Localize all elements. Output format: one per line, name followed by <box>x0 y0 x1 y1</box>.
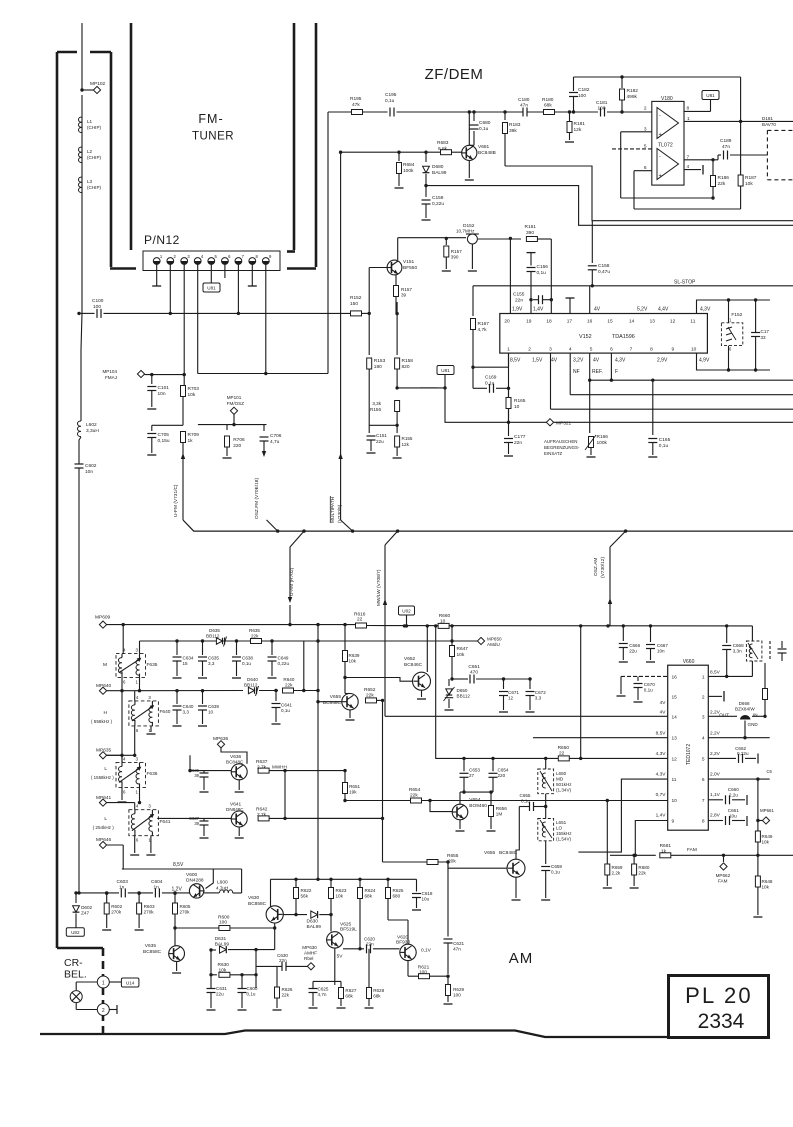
svg-text:15: 15 <box>672 694 678 700</box>
svg-text:R155: R155 <box>402 436 413 441</box>
svg-text:470: 470 <box>470 670 478 676</box>
svg-text:TED1072: TED1072 <box>686 744 692 765</box>
svg-text:C660: C660 <box>728 787 739 792</box>
svg-text:L651: L651 <box>556 820 567 825</box>
svg-text:C641: C641 <box>281 703 292 708</box>
svg-text:39k: 39k <box>509 128 517 134</box>
svg-text:V681: V681 <box>478 144 490 150</box>
svg-text:0,22u: 0,22u <box>432 201 444 207</box>
svg-text:R603: R603 <box>144 904 155 909</box>
svg-text:3,3: 3,3 <box>535 696 542 701</box>
svg-text:R165: R165 <box>514 398 526 404</box>
svg-text:U-FM (V731/C): U-FM (V731/C) <box>173 484 179 517</box>
svg-text:100: 100 <box>93 304 101 310</box>
svg-text:14: 14 <box>672 714 678 720</box>
svg-text:68k: 68k <box>373 994 381 999</box>
svg-text:C655: C655 <box>520 793 531 798</box>
svg-text:C155: C155 <box>513 292 525 298</box>
svg-text:R616: R616 <box>354 612 366 618</box>
svg-text:0,1u: 0,1u <box>659 443 669 449</box>
svg-text:C639: C639 <box>208 704 219 709</box>
svg-text:1: 1 <box>136 680 139 685</box>
svg-text:V660: V660 <box>683 659 695 665</box>
svg-text:REF.: REF. <box>592 369 603 375</box>
svg-text:D650: D650 <box>457 688 468 693</box>
svg-text:F640: F640 <box>160 709 171 715</box>
svg-text:R627: R627 <box>345 988 356 993</box>
svg-text:U81: U81 <box>207 286 216 291</box>
svg-text:C165: C165 <box>659 437 671 443</box>
svg-text:1n: 1n <box>119 884 125 890</box>
svg-text:39: 39 <box>194 821 199 826</box>
svg-text:13: 13 <box>672 736 678 742</box>
svg-text:22k: 22k <box>410 793 418 799</box>
svg-text:D680: D680 <box>432 164 444 170</box>
svg-text:17: 17 <box>567 319 573 325</box>
svg-text:3,3n: 3,3n <box>733 649 742 654</box>
svg-text:BAL99: BAL99 <box>215 942 230 948</box>
svg-text:27: 27 <box>469 773 475 778</box>
svg-text:R156: R156 <box>370 407 381 412</box>
svg-text:C181: C181 <box>596 100 608 106</box>
svg-text:1,1V: 1,1V <box>710 792 721 798</box>
svg-text:1,4V: 1,4V <box>656 813 667 819</box>
svg-text:270k: 270k <box>144 910 155 915</box>
svg-text:C651: C651 <box>468 664 480 670</box>
svg-text:L3: L3 <box>87 179 93 184</box>
svg-text:1: 1 <box>702 674 705 680</box>
svg-text:10k: 10k <box>219 967 227 973</box>
svg-text:8,5V: 8,5V <box>710 670 721 676</box>
svg-text:100: 100 <box>419 970 427 976</box>
svg-text:0,1u: 0,1u <box>385 98 395 104</box>
svg-text:R605: R605 <box>180 904 191 909</box>
svg-text:FMAJ: FMAJ <box>105 375 117 380</box>
svg-text:C672: C672 <box>535 690 546 695</box>
svg-text:BC848C: BC848C <box>499 850 518 856</box>
svg-text:R683: R683 <box>437 140 449 146</box>
svg-text:4,9V: 4,9V <box>699 358 710 364</box>
svg-text:22k: 22k <box>638 871 646 876</box>
svg-text:AMdU: AMdU <box>487 642 500 647</box>
svg-text:1: 1 <box>507 347 510 353</box>
svg-text:10k: 10k <box>762 840 770 845</box>
svg-text:C670: C670 <box>644 682 655 687</box>
svg-text:10u: 10u <box>422 897 430 902</box>
svg-text:R187: R187 <box>745 175 757 181</box>
svg-text:BAL99: BAL99 <box>432 170 447 176</box>
svg-text:C180: C180 <box>518 97 530 103</box>
svg-text:2,2V: 2,2V <box>710 731 721 737</box>
svg-text:47n: 47n <box>520 103 528 109</box>
svg-text:D631: D631 <box>215 936 227 942</box>
svg-text:6: 6 <box>136 728 139 733</box>
svg-text:16: 16 <box>587 319 593 325</box>
svg-text:7: 7 <box>630 347 633 353</box>
svg-text:10k: 10k <box>349 659 357 664</box>
svg-text:Z47: Z47 <box>81 911 89 916</box>
svg-text:0,1u: 0,1u <box>247 992 256 997</box>
svg-text:C600: C600 <box>247 986 258 991</box>
svg-text:BB112: BB112 <box>206 634 220 639</box>
svg-text:F641: F641 <box>160 819 171 825</box>
svg-text:4,3V: 4,3V <box>615 358 626 364</box>
svg-text:10,7MHz: 10,7MHz <box>456 229 475 234</box>
svg-text:4V: 4V <box>551 358 558 364</box>
svg-text:C602: C602 <box>85 463 97 469</box>
svg-text:22u: 22u <box>216 992 224 997</box>
svg-text:C151: C151 <box>376 433 387 438</box>
svg-text:39: 39 <box>194 773 199 778</box>
svg-text:4,3V: 4,3V <box>656 751 667 757</box>
svg-text:10: 10 <box>514 404 520 410</box>
svg-text:R637: R637 <box>256 759 268 765</box>
svg-text:R161: R161 <box>525 224 537 230</box>
svg-text:22k: 22k <box>718 181 726 187</box>
svg-text:11: 11 <box>672 777 677 783</box>
svg-text:+: + <box>659 132 662 138</box>
svg-text:L: L <box>104 766 107 772</box>
svg-text:BB112: BB112 <box>244 682 258 687</box>
svg-text:MWHH: MWHH <box>272 765 287 770</box>
svg-text:56k: 56k <box>301 894 309 899</box>
svg-text:0,7V: 0,7V <box>656 792 667 798</box>
svg-text:+: + <box>659 173 662 179</box>
svg-text:22k: 22k <box>285 682 293 687</box>
svg-text:(1,34V): (1,34V) <box>556 788 572 793</box>
svg-text:C668: C668 <box>733 643 744 648</box>
svg-text:R630: R630 <box>218 962 230 968</box>
svg-text:0,1u: 0,1u <box>537 270 547 276</box>
svg-text:BO9460: BO9460 <box>469 803 487 809</box>
svg-text:BEL.: BEL. <box>64 969 87 981</box>
svg-text:MP609: MP609 <box>95 615 111 621</box>
svg-text:100: 100 <box>598 105 606 111</box>
svg-text:R152: R152 <box>350 295 362 301</box>
svg-text:4V: 4V <box>660 710 667 716</box>
svg-text:C6: C6 <box>767 769 773 774</box>
svg-text:100: 100 <box>219 920 227 926</box>
svg-text:2,0V: 2,0V <box>710 772 721 778</box>
svg-text:C631: C631 <box>216 986 227 991</box>
svg-text:R684: R684 <box>403 162 415 168</box>
svg-text:68k: 68k <box>544 103 552 109</box>
svg-text:R626: R626 <box>282 987 293 992</box>
svg-text:3: 3 <box>136 648 139 653</box>
svg-text:0,1u: 0,1u <box>281 708 290 713</box>
svg-text:R600: R600 <box>218 915 230 921</box>
svg-text:10: 10 <box>672 798 678 804</box>
svg-text:10n: 10n <box>158 391 166 397</box>
svg-text:R629: R629 <box>453 987 464 992</box>
svg-text:10k: 10k <box>745 181 753 187</box>
svg-text:8,5V: 8,5V <box>173 862 184 868</box>
svg-text:R655: R655 <box>447 853 459 859</box>
svg-text:1,2V: 1,2V <box>172 886 183 892</box>
svg-text:NF: NF <box>573 369 580 375</box>
svg-text:C680: C680 <box>479 120 491 126</box>
svg-text:1,4V: 1,4V <box>533 307 544 313</box>
svg-text:3: 3 <box>148 695 151 700</box>
svg-text:5: 5 <box>590 347 593 353</box>
svg-text:D635: D635 <box>209 628 220 633</box>
svg-text:3,3: 3,3 <box>183 710 190 715</box>
svg-text:ZF/DEM: ZF/DEM <box>425 66 484 83</box>
svg-text:6: 6 <box>729 347 732 352</box>
svg-text:R183: R183 <box>509 122 521 128</box>
svg-text:3: 3 <box>702 714 705 720</box>
svg-text:4: 4 <box>123 756 126 761</box>
svg-text:R680: R680 <box>638 865 649 870</box>
svg-text:D630: D630 <box>307 919 319 925</box>
svg-text:MP101: MP101 <box>227 395 242 400</box>
svg-text:0,1u: 0,1u <box>551 870 560 875</box>
svg-text:3,3uH: 3,3uH <box>86 428 99 434</box>
svg-text:FAM: FAM <box>718 879 728 884</box>
svg-text:270k: 270k <box>111 910 122 915</box>
svg-text:6: 6 <box>136 838 139 843</box>
svg-text:10k: 10k <box>188 392 196 398</box>
svg-text:4,7n: 4,7n <box>318 992 327 997</box>
svg-text:CR-: CR- <box>64 957 83 969</box>
svg-text:TL072: TL072 <box>658 143 673 149</box>
svg-text:68k: 68k <box>365 894 373 899</box>
svg-text:U81: U81 <box>441 368 450 373</box>
svg-text:499k: 499k <box>627 94 638 100</box>
svg-text:0,22u: 0,22u <box>278 661 290 666</box>
svg-text:R167: R167 <box>478 321 490 327</box>
svg-text:47n: 47n <box>722 144 730 150</box>
svg-text:C621: C621 <box>453 941 464 946</box>
svg-text:1: 1 <box>136 789 139 794</box>
svg-text:C603: C603 <box>117 879 129 885</box>
svg-text:680: 680 <box>393 894 401 899</box>
svg-text:9: 9 <box>672 819 675 825</box>
svg-text:R642: R642 <box>256 807 268 813</box>
svg-text:10n: 10n <box>657 649 665 654</box>
svg-text:15: 15 <box>183 661 189 666</box>
svg-text:AUFRAUSCHEN: AUFRAUSCHEN <box>544 439 577 444</box>
svg-text:33: 33 <box>761 335 767 340</box>
svg-text:0,1u: 0,1u <box>644 688 653 693</box>
svg-text:4V: 4V <box>593 358 600 364</box>
svg-text:10: 10 <box>691 347 697 353</box>
svg-text:F636: F636 <box>147 771 158 777</box>
svg-text:3,2V: 3,2V <box>573 358 584 364</box>
svg-text:2,9V: 2,9V <box>657 358 668 364</box>
svg-text:100: 100 <box>453 993 461 998</box>
svg-text:MP650: MP650 <box>487 637 502 642</box>
svg-text:4,3V: 4,3V <box>656 772 667 778</box>
svg-text:1,5V: 1,5V <box>532 358 543 364</box>
svg-text:12: 12 <box>672 756 678 762</box>
svg-text:6: 6 <box>123 680 126 685</box>
svg-text:V625: V625 <box>340 922 352 928</box>
svg-text:C661: C661 <box>728 808 739 813</box>
svg-text:390: 390 <box>526 230 534 236</box>
svg-text:2,7k: 2,7k <box>257 812 267 818</box>
svg-text:H: H <box>104 710 108 716</box>
svg-text:C667: C667 <box>657 643 668 648</box>
svg-text:C182: C182 <box>578 87 590 93</box>
svg-text:V635: V635 <box>145 943 157 949</box>
svg-text:1k: 1k <box>661 848 667 854</box>
svg-text:47n: 47n <box>453 947 461 952</box>
svg-text:270k: 270k <box>180 910 191 915</box>
svg-text:C640: C640 <box>183 704 194 709</box>
svg-text:12k: 12k <box>574 127 582 133</box>
svg-text:(CHIP): (CHIP) <box>87 185 102 190</box>
svg-text:R654: R654 <box>409 787 421 793</box>
svg-text:C618: C618 <box>422 891 433 896</box>
svg-text:18: 18 <box>546 319 552 325</box>
svg-text:22n: 22n <box>514 440 522 446</box>
svg-text:4,3V: 4,3V <box>700 307 711 313</box>
svg-text:V620: V620 <box>397 935 409 941</box>
svg-text:(1,54V): (1,54V) <box>556 837 572 842</box>
svg-text:LO: LO <box>556 826 563 831</box>
svg-text:C100: C100 <box>92 298 104 304</box>
svg-text:4V: 4V <box>594 307 601 313</box>
svg-text:C653: C653 <box>469 768 480 773</box>
svg-text:22n: 22n <box>279 958 287 963</box>
svg-text:C634: C634 <box>183 656 194 661</box>
svg-text:C159: C159 <box>432 195 444 201</box>
svg-text:3,3k: 3,3k <box>372 401 381 406</box>
svg-text:2,8V: 2,8V <box>710 813 721 819</box>
svg-text:BEGRENZUNGS-: BEGRENZUNGS- <box>544 445 580 450</box>
svg-text:R660: R660 <box>439 613 451 619</box>
svg-text:L602: L602 <box>86 422 97 428</box>
svg-text:16: 16 <box>672 674 678 680</box>
svg-text:V655: V655 <box>484 850 496 856</box>
svg-text:100: 100 <box>578 93 586 99</box>
svg-text:V655: V655 <box>330 694 342 700</box>
svg-text:0,1u: 0,1u <box>242 661 251 666</box>
svg-text:R624: R624 <box>365 888 376 893</box>
svg-text:MW/LW (V708/7): MW/LW (V708/7) <box>376 569 382 606</box>
svg-text:C158: C158 <box>598 263 610 269</box>
svg-text:68k: 68k <box>345 994 353 999</box>
svg-text:1k: 1k <box>188 438 194 444</box>
svg-text:R157: R157 <box>401 287 412 292</box>
svg-text:47k: 47k <box>352 102 360 108</box>
svg-text:2: 2 <box>644 106 647 112</box>
svg-text:V652: V652 <box>404 656 416 662</box>
svg-text:( 558kHz ): ( 558kHz ) <box>91 719 113 724</box>
svg-text:BC848C: BC848C <box>323 700 342 706</box>
svg-text:R640: R640 <box>283 677 294 682</box>
svg-text:MP102: MP102 <box>90 81 106 87</box>
svg-text:MP636: MP636 <box>213 736 229 742</box>
svg-text:D181: D181 <box>762 116 773 121</box>
svg-text:1: 1 <box>102 980 105 986</box>
svg-text:BAV70: BAV70 <box>762 122 776 127</box>
svg-text:AM: AM <box>509 950 534 967</box>
svg-text:C706: C706 <box>270 433 282 439</box>
svg-text:( 254kHz ): ( 254kHz ) <box>93 825 115 830</box>
svg-text:8: 8 <box>702 819 705 825</box>
svg-text:( 1558kHz ): ( 1558kHz ) <box>91 775 114 780</box>
svg-text:C659: C659 <box>551 864 562 869</box>
svg-text:4: 4 <box>702 736 705 742</box>
svg-text:150: 150 <box>350 301 358 307</box>
svg-text:180: 180 <box>374 364 382 370</box>
svg-text:R602: R602 <box>111 904 122 909</box>
svg-text:PL 20: PL 20 <box>685 983 753 1008</box>
svg-text:1M: 1M <box>496 812 503 817</box>
svg-text:390: 390 <box>451 255 459 260</box>
svg-text:12: 12 <box>670 319 676 325</box>
svg-text:6: 6 <box>702 777 705 783</box>
svg-text:1,9V: 1,9V <box>512 307 523 313</box>
svg-text:C654: C654 <box>498 768 509 773</box>
svg-text:C177: C177 <box>514 434 526 440</box>
svg-text:MD: MD <box>556 777 564 782</box>
svg-text:R181: R181 <box>574 121 586 127</box>
svg-text:BF519L: BF519L <box>340 927 357 933</box>
svg-text:22k: 22k <box>366 692 374 698</box>
svg-text:L1: L1 <box>87 119 93 124</box>
svg-text:13: 13 <box>650 319 656 325</box>
svg-text:100k: 100k <box>597 440 608 446</box>
svg-text:F: F <box>615 369 618 375</box>
svg-text:V630: V630 <box>248 895 260 901</box>
svg-text:BC858C: BC858C <box>248 901 267 907</box>
svg-text:2334: 2334 <box>698 1010 745 1033</box>
svg-text:TDA1596: TDA1596 <box>612 334 635 340</box>
svg-text:R656: R656 <box>496 806 507 811</box>
svg-text:2: 2 <box>528 347 531 353</box>
svg-text:BC848B: BC848B <box>478 150 496 156</box>
svg-text:10u: 10u <box>729 813 737 818</box>
svg-text:4,7uH: 4,7uH <box>216 886 228 891</box>
svg-text:D668: D668 <box>739 701 750 706</box>
svg-text:F635: F635 <box>147 662 158 668</box>
svg-text:TUNER: TUNER <box>192 131 234 143</box>
svg-text:SL-STOP: SL-STOP <box>674 280 696 286</box>
svg-text:R180: R180 <box>542 97 554 103</box>
svg-text:8,5V: 8,5V <box>510 358 521 364</box>
svg-text:19k: 19k <box>349 790 357 795</box>
svg-text:C17: C17 <box>761 329 770 334</box>
svg-text:F152: F152 <box>731 312 742 318</box>
svg-text:3: 3 <box>136 756 139 761</box>
svg-text:V180: V180 <box>661 96 673 102</box>
svg-text:22n: 22n <box>515 297 523 303</box>
svg-text:C189: C189 <box>720 138 732 144</box>
svg-text:D602: D602 <box>81 905 92 910</box>
svg-text:2,2k: 2,2k <box>612 871 621 876</box>
svg-text:5,2V: 5,2V <box>637 307 648 313</box>
svg-text:100k: 100k <box>403 168 414 174</box>
svg-text:11: 11 <box>690 319 695 325</box>
svg-text:6: 6 <box>123 789 126 794</box>
svg-text:C638: C638 <box>242 656 253 661</box>
svg-text:R158: R158 <box>402 358 414 364</box>
svg-text:BAL99: BAL99 <box>307 924 322 930</box>
svg-text:4: 4 <box>569 347 572 353</box>
svg-text:BC846C: BC846C <box>404 662 423 668</box>
svg-text:4,4V: 4,4V <box>658 307 669 313</box>
svg-text:12k: 12k <box>402 442 410 447</box>
svg-text:C649: C649 <box>278 656 289 661</box>
svg-text:BC848C: BC848C <box>226 759 244 764</box>
svg-text:1: 1 <box>729 318 732 323</box>
svg-text:4: 4 <box>136 695 139 700</box>
svg-text:0,15u: 0,15u <box>158 438 170 444</box>
svg-text:(CHIP): (CHIP) <box>87 155 102 160</box>
